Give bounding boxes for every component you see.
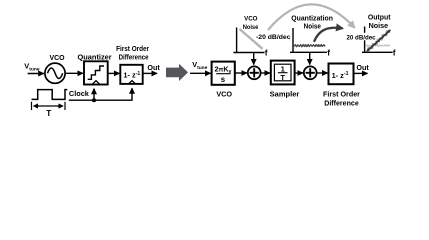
wire: VCO to quantizer [65, 72, 83, 74]
svg-text:First Order: First Order [323, 91, 360, 99]
label 20 dB/dec (with white backing over axis) [346, 33, 376, 41]
wire: Vtune arrow into VCO transfer block [190, 72, 211, 74]
VCO noise plot axes [236, 28, 238, 53]
dark arc from quantization noise to output noise [314, 28, 343, 42]
svg-text:Quantization: Quantization [291, 13, 333, 22]
big gray implies arrow [166, 64, 188, 81]
svg-text:f: f [393, 47, 396, 57]
wire: Out arrow (left) [143, 72, 157, 74]
output noise plot axes [364, 27, 366, 53]
svg-text:Out: Out [147, 63, 160, 72]
wire: quantization noise arrow down into adder 2 [309, 53, 311, 65]
svg-text:Noise: Noise [369, 21, 389, 30]
svg-text:Noise: Noise [243, 24, 259, 31]
wire: VCO block to adder 1 [235, 72, 247, 74]
svg-text:s: s [221, 75, 226, 84]
wire: Out arrow (right) [354, 72, 368, 74]
adder 1 circle with plus [248, 66, 261, 79]
staircase symbol inside quantizer [88, 66, 104, 79]
wire: clock distribution line [69, 88, 132, 100]
VCO oscillator circle [45, 63, 65, 83]
svg-text:Out: Out [356, 63, 369, 72]
faint residual quantization noise on output plot [366, 45, 391, 47]
svg-text:Clock: Clock [69, 91, 89, 98]
svg-text:f: f [327, 47, 330, 57]
period T double arrow with end ticks [31, 102, 33, 110]
svg-text:Sampler: Sampler [270, 90, 300, 99]
svg-text:20 dB/dec: 20 dB/dec [347, 34, 376, 41]
svg-text:VCO: VCO [244, 15, 257, 22]
wire: adder 2 to 1-z^-1 block [317, 72, 328, 74]
gray arc from VCO noise to output noise [268, 4, 355, 30]
svg-text:VCO: VCO [49, 53, 64, 62]
quantization noise plot axes [292, 28, 294, 52]
svg-text:First Order: First Order [116, 46, 149, 53]
adder 2 circle with plus [304, 66, 317, 79]
wire: sampler to adder 2 [295, 72, 303, 74]
first order difference block (left) 1-z^-1 [120, 65, 142, 84]
svg-text:f: f [265, 48, 268, 58]
output noise 20dB/dec rising line [367, 30, 391, 51]
wire: clock arrow up into quantizer [93, 89, 95, 101]
svg-text:Difference: Difference [324, 100, 359, 108]
svg-text:Quantizer: Quantizer [78, 52, 112, 61]
svg-text:VCO: VCO [216, 90, 232, 99]
wire: Vtune input arrow into VCO [28, 73, 44, 75]
wire: VCO noise arrow down into adder 1 [253, 53, 255, 64]
sampler block (double box) [271, 61, 295, 85]
clock pulse waveform symbol [32, 90, 68, 100]
svg-text:Difference: Difference [119, 54, 149, 61]
svg-text:T: T [280, 73, 285, 82]
VCO transfer function block 2piKv/s [212, 62, 235, 85]
svg-text:-20 dB/dec: -20 dB/dec [256, 34, 291, 41]
quantization flat noise scribble [294, 45, 325, 47]
clock caret on quantizer bottom [92, 81, 100, 85]
first order difference block (right) 1-z^-1 [329, 64, 354, 85]
clock caret on 1-z^-1 bottom [129, 81, 136, 84]
svg-text:Noise: Noise [304, 23, 321, 30]
sine wave symbol inside VCO [48, 68, 63, 79]
VCO noise -20dB/dec slope line (gray) [240, 29, 263, 49]
junction dot on clock line [92, 98, 96, 102]
wire: adder 1 to sampler [261, 72, 270, 74]
svg-text:T: T [46, 109, 51, 117]
quantizer box [84, 61, 108, 84]
wire: quantizer to first-order-difference block [108, 72, 120, 74]
